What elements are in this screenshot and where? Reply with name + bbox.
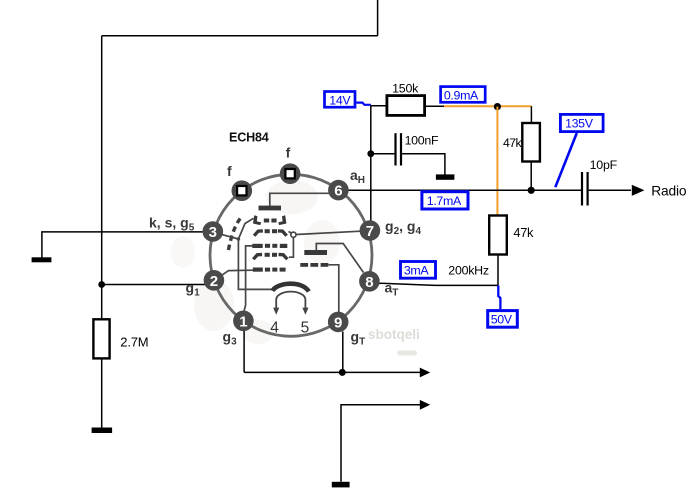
grid row g2: [252, 253, 289, 261]
svg-text:3mA: 3mA: [404, 263, 430, 277]
wire orange drop to 47k lower: [496, 107, 498, 216]
wire pin 2 to g1 row: [221, 270, 254, 276]
pin 8: [359, 271, 380, 292]
pin 5 heater f: [280, 163, 301, 184]
wire pin 3 to junction: [222, 234, 239, 239]
wire anode output line: [348, 189, 581, 191]
wire g4 cup to ring: [289, 232, 292, 234]
ground (pin 3 / k,s,g5): [32, 257, 52, 262]
svg-text:1: 1: [239, 313, 247, 330]
voltage label 135V: [560, 114, 603, 131]
wire screen feed (orange): [444, 105, 531, 107]
wire 150k right lead: [425, 105, 444, 107]
wire pin 1 down: [243, 331, 245, 372]
grid row gT: [300, 263, 328, 267]
heptode anode bar aH: [259, 206, 282, 211]
svg-text:135V: 135V: [565, 116, 594, 130]
wire top horizontal: [102, 35, 378, 37]
capacitor 10pF: [582, 172, 588, 206]
grid row g5: [253, 215, 286, 225]
wire pin 3 to ground: [42, 232, 203, 258]
current label 3mA: [401, 262, 436, 279]
wire pin 8 to 200kHz node: [379, 283, 499, 285]
wire gT row to pin 9: [329, 265, 339, 312]
pin 4 heater f: [232, 180, 253, 201]
svg-text:f: f: [286, 145, 291, 161]
capacitor 100nF: [396, 133, 402, 165]
grid row g3: [252, 244, 287, 248]
pin 2: [204, 270, 225, 291]
wire g3 output to arrow: [244, 371, 420, 373]
wire 14V pointer (blue): [356, 103, 370, 106]
node cathode junction: [237, 237, 241, 241]
node screen ring: [291, 232, 296, 237]
grid row g1: [253, 268, 286, 272]
svg-text:47k: 47k: [513, 225, 534, 240]
node 0.9mA junction: [494, 103, 501, 110]
wire to resistor 150k: [371, 105, 387, 107]
wire 47k upper bottom lead: [530, 162, 532, 191]
heater arc with arrows: [276, 292, 305, 309]
node g1 junction: [98, 281, 105, 288]
wire left vertical to g1 node: [101, 36, 103, 285]
socket circle: [210, 174, 372, 336]
pin 7: [360, 220, 381, 241]
grid row g4: [253, 229, 288, 237]
svg-text:1.7mA: 1.7mA: [427, 194, 462, 208]
current label 0.9mA: [441, 87, 486, 103]
wire 50V pointer (blue): [498, 285, 500, 309]
voltage label 14V: [325, 92, 356, 108]
node g3/gT junction: [339, 369, 346, 376]
wire resistor 2.7M to ground: [101, 358, 103, 427]
wire aT to pin 8: [316, 244, 363, 273]
current label 1.7mA: [422, 192, 468, 209]
svg-text:0.9mA: 0.9mA: [444, 88, 479, 102]
wire pin 9 down: [342, 332, 344, 373]
pin 3: [203, 221, 224, 242]
svg-text:2.7M: 2.7M: [120, 334, 148, 349]
svg-text:f: f: [227, 163, 232, 179]
ground (bottom): [332, 482, 350, 488]
svg-text:4: 4: [270, 319, 279, 336]
wire g3 row to pin 1: [244, 246, 253, 313]
svg-text:47k: 47k: [503, 136, 523, 150]
voltage label 50V: [488, 311, 518, 328]
wire 47k lower bottom lead: [497, 255, 499, 286]
resistor 47k upper: [522, 123, 540, 162]
svg-text:100nF: 100nF: [405, 134, 439, 148]
wire to 100nF: [371, 153, 395, 155]
pin 6: [328, 180, 349, 201]
svg-text:10pF: 10pF: [590, 158, 618, 172]
pin 9: [328, 312, 349, 333]
cathode arc: [273, 284, 309, 292]
node 100nF junction: [367, 150, 374, 157]
svg-text:8: 8: [365, 274, 373, 291]
pin 1: [233, 311, 254, 332]
wire aH to pin 6: [270, 193, 331, 206]
svg-text:2: 2: [210, 273, 218, 290]
wire to radio arrow: [589, 189, 631, 191]
ground (100nF): [436, 174, 455, 179]
wire 14V node to pin 7 vertical: [370, 106, 372, 221]
svg-text:ECH84: ECH84: [229, 131, 269, 145]
svg-text:5: 5: [301, 319, 310, 336]
wire gT return from arrow: [341, 405, 420, 482]
svg-text:3: 3: [209, 224, 217, 241]
wire junction to cathode arc: [238, 239, 272, 289]
wire node to resistor 2.7M: [101, 285, 103, 320]
wire ring to g2 row: [289, 237, 294, 257]
svg-text:200kHz: 200kHz: [448, 264, 489, 278]
wire 135V pointer (blue): [555, 133, 577, 187]
wire g1 node to pin 2: [102, 284, 206, 286]
svg-text:sbotqeli: sbotqeli: [368, 327, 420, 342]
triode anode bar aT: [304, 250, 327, 255]
resistor 47k lower: [489, 216, 507, 255]
resistor 2.7M: [93, 319, 109, 358]
svg-text:14V: 14V: [329, 93, 351, 107]
wire junction to g5 row: [238, 218, 253, 239]
shield s dashed arc: [228, 219, 240, 253]
arrow heater pin 4: [273, 308, 279, 315]
arrow gT return: [420, 400, 430, 410]
arrow g3 output: [420, 368, 430, 378]
svg-text:6: 6: [334, 183, 342, 200]
node anode line junction: [528, 187, 535, 194]
wire 100nF to ground: [402, 154, 445, 175]
svg-text:Radio: Radio: [651, 184, 687, 199]
svg-text:9: 9: [334, 314, 342, 331]
arrow heater pin 5: [302, 308, 308, 315]
svg-text:7: 7: [366, 223, 374, 240]
arrow Radio output: [632, 185, 645, 196]
resistor 150k: [387, 96, 425, 116]
svg-text:150k: 150k: [392, 81, 419, 95]
tube ECH84 socket: [149, 131, 421, 348]
ground (below 2.7M): [92, 428, 113, 434]
wire ring to pin 7: [296, 231, 360, 234]
wire top feed vertical: [377, 0, 379, 36]
wire 47k upper top lead: [530, 106, 532, 123]
svg-text:50V: 50V: [491, 312, 513, 326]
